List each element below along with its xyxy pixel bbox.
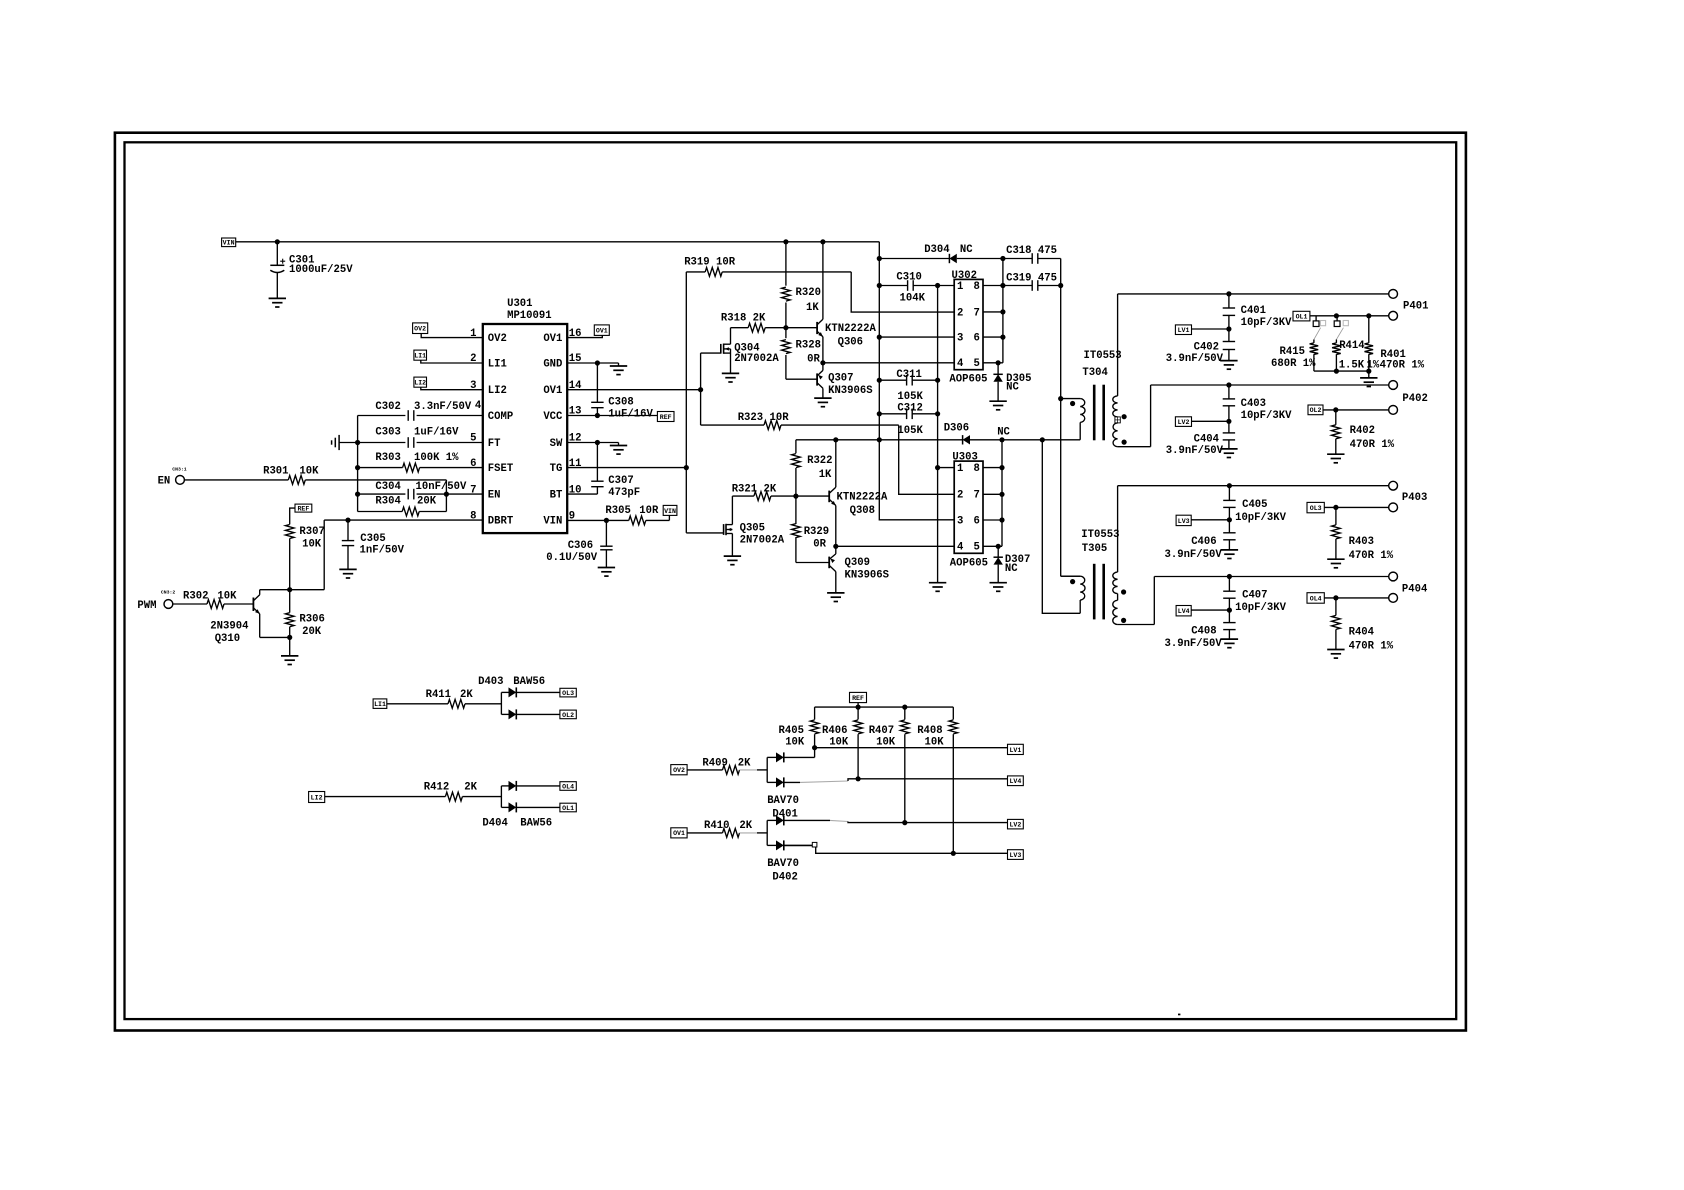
transformer T305 primary bbox=[1061, 529, 1120, 613]
svg-text:R305: R305 bbox=[605, 505, 630, 517]
capacitor C310 bbox=[879, 271, 937, 304]
wire pin10 BT bbox=[567, 493, 597, 495]
svg-text:VCC: VCC bbox=[543, 411, 563, 423]
net label LV3 out bbox=[1008, 850, 1024, 860]
junction ground bus top bbox=[935, 283, 940, 288]
svg-text:GND: GND bbox=[543, 358, 562, 370]
svg-text:10R: 10R bbox=[639, 505, 659, 517]
svg-text:105K: 105K bbox=[897, 425, 923, 437]
junction D307 tap bbox=[996, 544, 1001, 549]
op-amp U301 MP10091 body bbox=[483, 298, 567, 533]
wire LV2 row bbox=[1192, 420, 1229, 422]
capacitor C405 bbox=[1223, 486, 1286, 524]
svg-text:10K: 10K bbox=[299, 465, 319, 477]
transistor Q305 2N7002A bbox=[724, 496, 785, 556]
svg-text:C312: C312 bbox=[897, 403, 922, 415]
junction VIN bus C310 bbox=[877, 283, 882, 288]
svg-text:U303: U303 bbox=[952, 452, 977, 464]
svg-text:REF: REF bbox=[297, 506, 309, 513]
capacitor C307 bbox=[591, 443, 640, 499]
svg-text:10pF/3KV: 10pF/3KV bbox=[1235, 512, 1287, 524]
U303 pin 3 / pin 6 numbers bbox=[957, 515, 980, 527]
junction Q306 collector VIN bbox=[820, 239, 825, 244]
svg-text:R322: R322 bbox=[807, 455, 832, 467]
junction LV4 R406 bbox=[856, 776, 861, 781]
svg-text:KTN2222A: KTN2222A bbox=[825, 323, 877, 335]
svg-text:C310: C310 bbox=[896, 271, 921, 283]
svg-text:C318 475: C318 475 bbox=[1006, 245, 1057, 257]
wire LV4 row bbox=[858, 778, 1007, 780]
svg-text:C307: C307 bbox=[608, 475, 633, 487]
net label OL3 bbox=[1307, 502, 1324, 512]
junction Q308-Q309 emitters bbox=[833, 544, 838, 549]
junction VIN bus C311 bbox=[877, 378, 882, 383]
svg-text:10K: 10K bbox=[925, 736, 945, 748]
wire D403 split bbox=[500, 692, 502, 714]
svg-text:2N7002A: 2N7002A bbox=[734, 353, 779, 365]
junction C407 top bbox=[1227, 574, 1232, 579]
junction VIN bus D304 row bbox=[877, 256, 882, 261]
svg-text:DBRT: DBRT bbox=[488, 516, 514, 528]
net label REF above R307 bbox=[295, 504, 312, 512]
wire emitters to U303 pin4 bbox=[836, 545, 954, 547]
junction chain pin6 bbox=[999, 517, 1004, 522]
stray mark bbox=[1178, 1014, 1180, 1016]
svg-text:1nF/50V: 1nF/50V bbox=[360, 545, 405, 557]
wire U303 right chain bbox=[1001, 440, 1003, 547]
terminal P403 return bbox=[1389, 503, 1398, 512]
svg-text:T305: T305 bbox=[1082, 543, 1107, 555]
junction C408 top bbox=[1227, 608, 1232, 613]
svg-text:3.9nF/50V: 3.9nF/50V bbox=[1165, 638, 1223, 650]
resistor R414 bbox=[1332, 340, 1380, 372]
junction C405 top bbox=[1227, 483, 1232, 488]
junction Q308 collector bbox=[833, 437, 838, 442]
svg-text:Q309: Q309 bbox=[845, 557, 870, 569]
svg-text:KN3906S: KN3906S bbox=[828, 385, 873, 397]
svg-text:R415: R415 bbox=[1280, 346, 1305, 358]
pin 2 name LI1 / pin 15 name GND bbox=[470, 353, 581, 370]
svg-text:20K: 20K bbox=[417, 495, 437, 507]
U302 pin 3 / pin 6 numbers bbox=[957, 333, 980, 345]
capacitor C406 bbox=[1165, 520, 1236, 561]
svg-text:BAW56: BAW56 bbox=[513, 676, 545, 688]
svg-text:1uF/16V: 1uF/16V bbox=[414, 427, 459, 439]
svg-text:R328: R328 bbox=[796, 340, 821, 352]
svg-text:100K 1%: 100K 1% bbox=[414, 452, 459, 464]
resistor R323 bbox=[701, 390, 899, 430]
capacitor C404 bbox=[1166, 421, 1235, 457]
wire R323 to U303 pin2 bbox=[899, 425, 955, 494]
svg-text:OL2: OL2 bbox=[1310, 407, 1322, 414]
svg-text:EN: EN bbox=[158, 476, 171, 488]
svg-text:5: 5 bbox=[973, 542, 979, 554]
svg-text:R302: R302 bbox=[183, 591, 208, 603]
ground below C306 bbox=[598, 568, 615, 577]
resistor R328 bbox=[782, 328, 821, 380]
junction chain pin8 bbox=[999, 465, 1004, 470]
junction C301 tap bbox=[275, 239, 280, 244]
net label LI2 source bbox=[309, 792, 325, 803]
svg-text:R410: R410 bbox=[704, 820, 729, 832]
pad at D402 cathode bbox=[812, 842, 817, 847]
svg-text:1: 1 bbox=[957, 463, 963, 475]
svg-text:2K: 2K bbox=[460, 689, 473, 701]
transistor Q307 KN3906S bbox=[817, 363, 873, 398]
svg-text:C405: C405 bbox=[1242, 499, 1267, 511]
svg-text:10K: 10K bbox=[217, 591, 237, 603]
junction rail R414 bbox=[1334, 369, 1339, 374]
ground below R306 bbox=[281, 637, 298, 664]
op-amp U303 AOP605 body bbox=[950, 452, 988, 570]
capacitor C301 bbox=[270, 242, 353, 299]
wire U302 pin6 bbox=[983, 336, 1003, 338]
svg-text:C406: C406 bbox=[1191, 536, 1216, 548]
svg-text:8: 8 bbox=[973, 281, 979, 293]
resistor R408 bbox=[917, 707, 957, 853]
resistor R319 bbox=[684, 257, 851, 277]
wire DBRT row bbox=[324, 520, 483, 590]
wire U303 pin1 bbox=[938, 467, 955, 469]
net label LV4 out bbox=[1008, 776, 1024, 786]
wire U303 pin5 bbox=[983, 545, 1002, 547]
svg-text:470R 1%: 470R 1% bbox=[1380, 360, 1425, 372]
svg-text:Q306: Q306 bbox=[838, 337, 863, 349]
svg-text:LV2: LV2 bbox=[1009, 822, 1021, 829]
svg-text:P402: P402 bbox=[1402, 393, 1427, 405]
svg-text:LI2: LI2 bbox=[414, 380, 426, 387]
svg-text:D306: D306 bbox=[944, 423, 969, 435]
wire LV1 row bbox=[1192, 328, 1229, 330]
junction R401 tap bbox=[1366, 313, 1371, 318]
ground below C301 bbox=[269, 298, 286, 307]
junction T305 drive bbox=[1040, 437, 1045, 442]
transistor Q310 2N3904 bbox=[210, 590, 289, 645]
svg-text:OV2: OV2 bbox=[673, 767, 685, 774]
svg-text:3: 3 bbox=[957, 515, 963, 527]
terminal P401 bbox=[1389, 290, 1429, 313]
junction OV1 to Q304 gate bbox=[698, 387, 703, 392]
svg-text:LI1: LI1 bbox=[374, 701, 386, 708]
svg-text:3.9nF/50V: 3.9nF/50V bbox=[1166, 445, 1224, 457]
svg-text:R318 2K: R318 2K bbox=[721, 312, 766, 324]
svg-text:2K: 2K bbox=[739, 820, 752, 832]
wire pin2 LI1 bbox=[421, 360, 483, 363]
resistor R301 bbox=[184, 465, 446, 494]
junction Q306-Q307 emitters bbox=[820, 360, 825, 365]
junction D305 tap bbox=[996, 360, 1001, 365]
svg-text:R405: R405 bbox=[779, 725, 804, 737]
svg-text:T304: T304 bbox=[1082, 367, 1108, 379]
junction C404 top bbox=[1226, 419, 1231, 424]
svg-text:C304: C304 bbox=[375, 481, 401, 493]
svg-text:R307: R307 bbox=[299, 526, 324, 538]
wire P401 row bbox=[1118, 293, 1389, 295]
svg-text:PWM: PWM bbox=[137, 600, 156, 612]
junction FSET bus bbox=[355, 465, 360, 470]
net label LI1 source bbox=[373, 699, 387, 709]
svg-text:LI2: LI2 bbox=[311, 794, 323, 801]
svg-text:4: 4 bbox=[957, 542, 964, 554]
svg-text:2N7002A: 2N7002A bbox=[740, 535, 785, 547]
ground below C404 bbox=[1220, 449, 1237, 458]
svg-text:BAV70: BAV70 bbox=[767, 795, 799, 807]
svg-text:NC: NC bbox=[960, 244, 973, 256]
svg-text:OV1: OV1 bbox=[543, 385, 562, 397]
svg-text:KN3906S: KN3906S bbox=[845, 570, 890, 582]
svg-text:2K: 2K bbox=[464, 781, 477, 793]
wire left bus COMP-FT-FSET-EN bbox=[357, 416, 359, 512]
resistor R411 bbox=[387, 689, 502, 708]
capacitor C312 bbox=[879, 403, 937, 437]
svg-text:Q305: Q305 bbox=[740, 523, 765, 535]
wire TG vertical to Q305 gate bbox=[686, 272, 723, 533]
pin 3 name LI2 / pin 14 name OV1 bbox=[470, 380, 582, 397]
resistor R329 bbox=[792, 496, 830, 562]
svg-text:R412: R412 bbox=[424, 781, 449, 793]
diode D402 BAV70 upper bbox=[767, 815, 905, 883]
diode D402 BAV70 lower bbox=[767, 840, 812, 850]
svg-text:10pF/3KV: 10pF/3KV bbox=[1235, 602, 1287, 614]
wire LV2 row bbox=[905, 822, 1008, 824]
svg-text:C306: C306 bbox=[568, 540, 593, 552]
capacitor C319 bbox=[1003, 272, 1061, 290]
svg-text:8: 8 bbox=[973, 463, 979, 475]
svg-text:Q307: Q307 bbox=[828, 372, 853, 384]
svg-text:D404: D404 bbox=[482, 818, 508, 830]
svg-text:C319 475: C319 475 bbox=[1006, 272, 1057, 284]
jumper pad R414 bbox=[1334, 316, 1348, 340]
svg-text:MP10091: MP10091 bbox=[507, 310, 552, 322]
junction C305 tap bbox=[345, 518, 350, 523]
resistor R405 bbox=[779, 707, 819, 748]
svg-text:VIN: VIN bbox=[223, 240, 235, 247]
svg-text:10K: 10K bbox=[829, 736, 849, 748]
svg-text:R406: R406 bbox=[822, 725, 847, 737]
svg-text:D402: D402 bbox=[772, 872, 797, 884]
ground below R402 bbox=[1327, 454, 1344, 463]
resistor R401 bbox=[1365, 316, 1425, 372]
wire REF rail bbox=[815, 703, 954, 708]
svg-text:D304: D304 bbox=[924, 244, 950, 256]
svg-text:IT0553: IT0553 bbox=[1084, 350, 1122, 362]
pin 5 name FT / pin 12 name SW bbox=[470, 433, 581, 450]
svg-text:OL1: OL1 bbox=[562, 805, 574, 812]
svg-text:OV2: OV2 bbox=[414, 326, 426, 333]
svg-text:0R: 0R bbox=[807, 353, 820, 365]
resistor R409 bbox=[687, 757, 767, 774]
svg-text:U301: U301 bbox=[507, 298, 532, 310]
svg-text:OV1: OV1 bbox=[673, 830, 685, 837]
resistor R402 bbox=[1332, 410, 1395, 454]
svg-text:1000uF/25V: 1000uF/25V bbox=[289, 264, 353, 276]
wire emitter node to U302 pin4 bbox=[823, 362, 954, 364]
ground below Q309 bbox=[827, 593, 844, 602]
svg-text:105K: 105K bbox=[897, 391, 923, 403]
capacitor C408 bbox=[1165, 610, 1236, 650]
resistor R322 bbox=[792, 440, 833, 496]
ground below R404 bbox=[1327, 650, 1344, 659]
ground at pin12 bbox=[610, 443, 627, 455]
svg-text:10K: 10K bbox=[302, 539, 322, 551]
net label OL2 bbox=[1308, 405, 1323, 415]
wire pin1 OV2 bbox=[421, 334, 483, 338]
wire pin12 SW bbox=[567, 442, 618, 444]
net label OV1 source bbox=[671, 828, 687, 838]
ground below Q304 bbox=[722, 373, 739, 382]
terminal P404 bbox=[1389, 572, 1428, 596]
net label OL3 out bbox=[560, 688, 576, 697]
svg-text:R414: R414 bbox=[1339, 340, 1365, 352]
chassis ground at FT bbox=[332, 435, 340, 450]
wire U303 pin7 bbox=[983, 493, 1002, 495]
svg-text:FT: FT bbox=[488, 438, 501, 450]
wire pin16 OV1 bbox=[567, 335, 602, 337]
svg-text:C404: C404 bbox=[1194, 433, 1220, 445]
junction R404 tap bbox=[1333, 595, 1338, 600]
transistor Q308 KTN2222A bbox=[829, 440, 888, 547]
net label LV1 out bbox=[1008, 744, 1024, 754]
wire Q304 gate vertical bbox=[701, 353, 721, 390]
svg-text:OV1: OV1 bbox=[543, 333, 562, 345]
capacitor C305 bbox=[342, 520, 405, 569]
transformer T305 secondary bbox=[1113, 486, 1155, 625]
wire OL2 row bbox=[1323, 409, 1389, 411]
resistor R404 bbox=[1332, 598, 1394, 652]
net label OL2 out bbox=[560, 710, 576, 719]
resistor R318 bbox=[721, 312, 786, 332]
capacitor C311 bbox=[879, 369, 937, 403]
junction R403 tap bbox=[1333, 505, 1338, 510]
svg-text:1: 1 bbox=[957, 281, 963, 293]
net label REF divider bbox=[850, 692, 867, 702]
junction C306 tap bbox=[604, 518, 609, 523]
junction R320 top VIN bbox=[783, 239, 788, 244]
svg-text:R408: R408 bbox=[917, 725, 942, 737]
svg-text:2: 2 bbox=[957, 490, 963, 502]
svg-text:CN3:2: CN3:2 bbox=[161, 590, 176, 596]
svg-text:3.9nF/50V: 3.9nF/50V bbox=[1165, 549, 1223, 561]
svg-text:LV4: LV4 bbox=[1178, 608, 1190, 615]
transistor Q304 2N7002A bbox=[721, 328, 780, 374]
junction LV1 R405 bbox=[812, 745, 817, 750]
junction chain pin7 bbox=[1000, 309, 1005, 314]
svg-text:R306: R306 bbox=[299, 614, 324, 626]
ground below C305 bbox=[339, 569, 356, 578]
svg-text:COMP: COMP bbox=[488, 411, 513, 423]
svg-text:R404: R404 bbox=[1349, 626, 1375, 638]
wire OL1 row bbox=[1310, 315, 1389, 317]
svg-text:2N3904: 2N3904 bbox=[210, 621, 249, 633]
U303 pin 4 / pin 5 numbers bbox=[957, 542, 980, 554]
wire P402 row bbox=[1151, 384, 1389, 386]
transistor Q306 KTN2222A bbox=[817, 242, 876, 363]
diode D401 BAV70 upper bbox=[767, 752, 814, 820]
capacitor C303 bbox=[339, 427, 483, 448]
resistor R412 bbox=[325, 781, 502, 801]
ground at pin15 bbox=[610, 363, 627, 375]
svg-text:LV2: LV2 bbox=[1178, 419, 1190, 426]
svg-text:LV4: LV4 bbox=[1009, 778, 1021, 785]
svg-text:R303: R303 bbox=[375, 452, 400, 464]
svg-text:C308: C308 bbox=[608, 397, 633, 409]
transistor Q309 KN3906S bbox=[829, 546, 890, 593]
wire U302 pin8 row bbox=[983, 285, 1003, 287]
junction D306 chain bbox=[999, 437, 1004, 442]
wire D402 split bbox=[766, 820, 768, 845]
capacitor C302 bbox=[358, 401, 483, 421]
wire U302 pin3 bbox=[879, 336, 954, 338]
resistor R304 bbox=[358, 494, 447, 516]
U303 pin 1 / pin 8 numbers bbox=[957, 463, 980, 475]
resistor R306 bbox=[285, 590, 324, 638]
svg-text:R411: R411 bbox=[426, 689, 451, 701]
diode D403 BAW56 lower bbox=[501, 709, 560, 719]
capacitor C401 bbox=[1223, 294, 1292, 329]
svg-text:C311: C311 bbox=[896, 369, 921, 381]
net label OV1 at pin 16 bbox=[594, 325, 609, 336]
capacitor C407 bbox=[1223, 577, 1286, 615]
terminal PWM CN3:2 bbox=[137, 590, 175, 612]
svg-text:OL2: OL2 bbox=[562, 712, 574, 719]
svg-text:OL1: OL1 bbox=[1296, 314, 1308, 321]
svg-text:10pF/3KV: 10pF/3KV bbox=[1241, 317, 1293, 329]
junction EN bus bbox=[355, 492, 360, 497]
junction EN pin bbox=[444, 492, 449, 497]
resistor R415 bbox=[1271, 340, 1318, 372]
svg-text:KTN2222A: KTN2222A bbox=[837, 491, 889, 503]
svg-text:OL4: OL4 bbox=[1310, 595, 1322, 602]
diode D306 NC bbox=[944, 423, 1011, 445]
wire VIN rail bbox=[236, 241, 880, 243]
junction R402 tap bbox=[1333, 407, 1338, 412]
svg-text:10pF/3KV: 10pF/3KV bbox=[1241, 410, 1293, 422]
wire VIN bus vertical bbox=[879, 242, 954, 520]
svg-text:7: 7 bbox=[973, 490, 979, 502]
wire Q309 base bbox=[796, 562, 829, 564]
wire D306 row bbox=[796, 439, 1080, 441]
svg-text:10nF/50V: 10nF/50V bbox=[416, 481, 468, 493]
net label LI1 at pin 2 bbox=[414, 350, 427, 360]
terminal P401 return bbox=[1389, 311, 1398, 320]
U302 pin 2 / pin 7 numbers bbox=[957, 307, 980, 319]
U303 pin 2 / pin 7 numbers bbox=[957, 490, 980, 502]
net label OL1 out bbox=[560, 803, 576, 812]
svg-text:VIN: VIN bbox=[664, 508, 676, 515]
transformer T304 secondary bbox=[1113, 294, 1151, 447]
net label REF at pin 13 bbox=[657, 412, 674, 422]
svg-text:680R 1%: 680R 1% bbox=[1271, 358, 1316, 370]
svg-text:R403: R403 bbox=[1349, 536, 1374, 548]
svg-text:2K: 2K bbox=[738, 757, 751, 769]
capacitor C402 bbox=[1166, 329, 1235, 365]
svg-text:AOP605: AOP605 bbox=[950, 557, 988, 569]
ground below C402 bbox=[1220, 361, 1237, 370]
junction LV3 R408 bbox=[951, 851, 956, 856]
svg-text:P404: P404 bbox=[1402, 584, 1428, 596]
svg-text:3.9nF/50V: 3.9nF/50V bbox=[1166, 353, 1224, 365]
svg-text:REF: REF bbox=[660, 414, 672, 421]
net label LV2 bbox=[1175, 417, 1191, 427]
svg-text:R321 2K: R321 2K bbox=[732, 484, 777, 496]
svg-text:C407: C407 bbox=[1242, 589, 1267, 601]
wire P403 row bbox=[1118, 485, 1389, 487]
svg-text:Q308: Q308 bbox=[850, 505, 875, 517]
svg-text:R329: R329 bbox=[804, 526, 829, 538]
svg-text:FSET: FSET bbox=[488, 463, 514, 475]
svg-text:OV1: OV1 bbox=[596, 328, 608, 335]
ground below D307 bbox=[990, 583, 1007, 592]
